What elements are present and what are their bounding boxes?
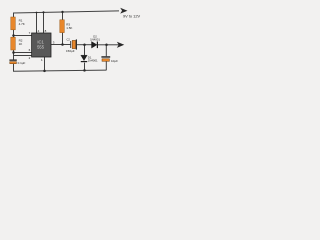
- resistor R3: [60, 20, 65, 33]
- svg-text:4.7K: 4.7K: [19, 22, 25, 26]
- junction pin1 on bottom rail: [43, 70, 46, 73]
- capacitor C1: [9, 59, 25, 64]
- wire C3 bottom lead: [105, 62, 107, 71]
- wire IC pin 8 to supply: [43, 12, 45, 33]
- junction D1 on bottom rail: [83, 69, 86, 72]
- wire R3 bottom to output node: [62, 33, 64, 45]
- resistor R2: [11, 37, 16, 50]
- svg-text:1K: 1K: [19, 42, 23, 46]
- wire left rail top (R1 top lead): [13, 13, 15, 18]
- capacitor C3: [101, 56, 118, 63]
- junction R3 on supply rail: [61, 11, 63, 13]
- capacitor C2 coupling: [66, 38, 77, 53]
- wire IC pin 3 output: [51, 44, 71, 46]
- svg-text:1N4001: 1N4001: [90, 37, 100, 41]
- wire R2 bottom to node B: [13, 50, 15, 60]
- wire C2 right to D2: [77, 44, 92, 46]
- wire node B to IC pin 6: [13, 52, 32, 54]
- svg-text:9V to 12V: 9V to 12V: [123, 14, 140, 19]
- diode D2: [90, 34, 100, 48]
- junction pin8 on supply rail: [42, 11, 44, 13]
- svg-text:555: 555: [37, 45, 45, 50]
- wire bottom ground rail: [13, 70, 107, 71]
- svg-text:1N4001: 1N4001: [88, 59, 98, 63]
- wire R3 top lead: [62, 12, 64, 20]
- wire C3 top lead: [105, 45, 107, 57]
- wire node A to IC pin 7: [13, 35, 32, 37]
- wire D2 cathode to node C: [98, 44, 107, 46]
- wire C1 bottom to bottom rail: [13, 64, 15, 72]
- wire R1 bottom to node A: [13, 30, 15, 38]
- svg-text:1.5K: 1.5K: [66, 26, 72, 30]
- junction R3 bottom / output: [61, 43, 64, 46]
- op-amp U1 : timer IC1 555: [29, 29, 55, 62]
- junction D1 top: [83, 43, 86, 46]
- svg-text:150µF: 150µF: [66, 49, 75, 53]
- wire IC pin 1 to bottom rail: [44, 57, 46, 71]
- diode D1: [81, 55, 98, 62]
- svg-text:10µF: 10µF: [111, 59, 118, 63]
- wire IC pin 4 to supply: [36, 12, 38, 33]
- supply arrow head: [121, 9, 126, 13]
- output arrow head: [118, 43, 123, 47]
- resistor R1: [11, 17, 16, 30]
- svg-text:C2: C2: [67, 38, 71, 42]
- junction node C (D2/C3/arrow): [105, 44, 108, 47]
- wire node B to IC pin 2: [13, 55, 32, 57]
- wire node C to output arrow: [107, 44, 120, 46]
- wire top supply rail: [13, 11, 119, 13]
- wire D1 top lead: [84, 45, 86, 56]
- wire D1 bottom lead: [84, 63, 86, 71]
- junction pin4 on supply rail: [36, 12, 38, 14]
- node A junction (R1/R2/pin7): [12, 34, 15, 37]
- node B junction (R2/C1/pins 2,6): [12, 51, 15, 54]
- svg-text:0.1µF: 0.1µF: [18, 61, 26, 65]
